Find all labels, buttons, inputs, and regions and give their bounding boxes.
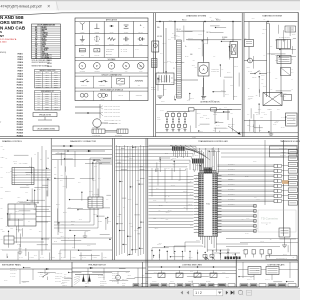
toolbar zoom icon <box>238 290 242 294</box>
svg-text:MR: MR <box>35 53 37 55</box>
transmission solenoid legend table <box>270 146 298 157</box>
svg-text:GN 0.8: GN 0.8 <box>226 277 230 279</box>
svg-text:GY 1.0: GY 1.0 <box>202 246 206 248</box>
starting lower wires <box>244 120 286 122</box>
svg-text:PG 4: PG 4 <box>78 182 81 184</box>
svg-text:GN 0.8: GN 0.8 <box>283 92 287 94</box>
svg-text:BR 0.8: BR 0.8 <box>6 226 10 228</box>
svg-text:BU 1.0: BU 1.0 <box>292 34 296 36</box>
svg-text:SHEET 1: SHEET 1 <box>100 285 105 287</box>
svg-text:A: A <box>203 68 205 72</box>
legend symbol battery <box>124 24 129 26</box>
svg-text:GLOW PLUG: GLOW PLUG <box>98 277 105 279</box>
circuit drawing legend box <box>33 126 59 131</box>
svg-text:FUSE 17: FUSE 17 <box>17 99 23 101</box>
svg-text:PG 2: PG 2 <box>108 221 111 223</box>
svg-text:WH 0.8: WH 0.8 <box>27 204 31 206</box>
svg-text:VT: VT <box>35 40 37 42</box>
legend symbol capacitor <box>123 38 125 40</box>
svg-text:LT GREEN: LT GREEN <box>42 48 49 50</box>
svg-text:DG: DG <box>35 57 37 59</box>
svg-text:RD 1.0: RD 1.0 <box>137 180 141 182</box>
svg-text:RD 1.0 PG 2: RD 1.0 PG 2 <box>10 270 17 272</box>
relay K1 <box>245 40 254 47</box>
svg-text:WORK LP: WORK LP <box>188 281 193 283</box>
svg-text:BK 2.0: BK 2.0 <box>273 124 276 126</box>
divider pre-heat / lighting switches (bottom) <box>235 256 237 287</box>
harness vertical wire bundle <box>116 145 118 256</box>
svg-text:OR 0.8: OR 0.8 <box>159 205 163 207</box>
svg-text:OR 0.8: OR 0.8 <box>129 158 133 160</box>
svg-text:PG 2: PG 2 <box>10 170 13 172</box>
charging misc wires lower <box>195 109 197 128</box>
legend header APPLICATION <box>75 20 148 22</box>
svg-text:BR 0.8: BR 0.8 <box>16 211 20 213</box>
svg-text:8 CN-8: 8 CN-8 <box>37 87 41 89</box>
svg-text:PG 2: PG 2 <box>55 93 58 95</box>
svg-text:WH 0.8: WH 0.8 <box>267 72 271 74</box>
nav next page button <box>226 291 228 294</box>
svg-text:WIRE CODES: WIRE CODES <box>106 49 114 51</box>
svg-text:RD 2.0: RD 2.0 <box>182 20 187 22</box>
right area lower wires <box>226 238 298 240</box>
svg-text:YE 1.0: YE 1.0 <box>162 80 166 82</box>
wire vertical to alternator <box>203 22 205 63</box>
diagnostic extra 3 <box>81 192 83 200</box>
svg-text:GY 0.8: GY 0.8 <box>19 257 23 259</box>
wires below diagnostic connector <box>89 208 91 222</box>
svg-text:BK 2.0: BK 2.0 <box>207 32 211 34</box>
svg-text:H-5: H-5 <box>37 102 39 104</box>
svg-text:RD: RD <box>35 31 37 33</box>
page number input box <box>193 289 223 295</box>
nav previous page button <box>187 291 189 294</box>
svg-text:OR 0.8: OR 0.8 <box>189 257 193 259</box>
svg-text:S 1.0: S 1.0 <box>177 95 180 97</box>
small components bottom right of TCU section <box>244 250 247 255</box>
TCU right pin stubs <box>217 175 222 177</box>
svg-text:PG 4: PG 4 <box>262 79 265 81</box>
neutral switch box <box>281 68 291 76</box>
diagnostic extra 2 <box>80 177 94 179</box>
svg-text:PG 2: PG 2 <box>287 37 290 39</box>
legend switch normally open <box>92 76 94 88</box>
svg-text:BR: BR <box>35 29 37 31</box>
svg-text:VOLTAGE: VOLTAGE <box>108 58 117 61</box>
svg-text:RD 1.0: RD 1.0 <box>196 240 200 242</box>
svg-text:PG 8: PG 8 <box>55 106 58 108</box>
harness horizontal stubs <box>134 214 139 216</box>
svg-text:GND 1.0: GND 1.0 <box>85 283 90 285</box>
fuse bank small box <box>189 108 195 111</box>
svg-text:BU 1.0: BU 1.0 <box>211 20 215 22</box>
svg-text:BR 0.8: BR 0.8 <box>26 173 30 175</box>
horizontal divider above bottom lighting section <box>0 259 298 261</box>
diagnostic vertical wires <box>57 160 59 235</box>
svg-text:LIGHTING RELAYS: LIGHTING RELAYS <box>268 264 286 267</box>
svg-text:WH 0.8: WH 0.8 <box>248 71 252 73</box>
svg-text:CB: CB <box>96 50 98 52</box>
legend grid columns <box>89 21 91 57</box>
area above TCU extra wires <box>209 168 211 172</box>
svg-text:WH 0.8: WH 0.8 <box>171 185 175 187</box>
svg-text:FUSE 5: FUSE 5 <box>18 65 24 67</box>
svg-text:YE 1.0: YE 1.0 <box>273 95 277 97</box>
svg-text:GY 1.0: GY 1.0 <box>37 189 41 191</box>
svg-text:KEY SW: KEY SW <box>157 36 163 38</box>
svg-text:FUSE 15: FUSE 15 <box>17 93 23 95</box>
svg-text:PG 3: PG 3 <box>264 113 267 115</box>
wire vertical to fusible link <box>232 22 234 43</box>
small relay lower right <box>279 228 290 237</box>
svg-text:H-8: H-8 <box>37 109 39 111</box>
svg-text:OR 0.8: OR 0.8 <box>261 75 265 77</box>
svg-text:PG 6: PG 6 <box>55 102 58 104</box>
svg-text:LIGHTING SWITCHES: LIGHTING SWITCHES <box>182 265 202 267</box>
svg-text:GY: GY <box>35 42 37 44</box>
svg-text:PG 3: PG 3 <box>71 223 74 225</box>
svg-text:BK 2.0: BK 2.0 <box>89 191 93 193</box>
bottom toolbar background <box>0 288 300 300</box>
svg-text:GY 1.0: GY 1.0 <box>39 276 43 278</box>
small inline fuse box mid band <box>211 108 217 111</box>
fuse bank elements <box>166 112 168 114</box>
legend coil symbol <box>135 80 143 81</box>
svg-text:GN 0.8 SOL 5: GN 0.8 SOL 5 <box>228 183 235 185</box>
svg-text:BK 1.0: BK 1.0 <box>283 59 287 61</box>
svg-text:FUSE 26: FUSE 26 <box>17 124 23 126</box>
svg-text:GREEN: GREEN <box>42 36 47 38</box>
svg-text:FUSE 23: FUSE 23 <box>17 116 23 118</box>
connector block above TCU <box>204 168 213 174</box>
diagonal feeders top left of TCU <box>170 146 201 153</box>
svg-text:NONE: NONE <box>122 285 125 287</box>
svg-text:RED: RED <box>42 31 45 33</box>
starter motor M1 <box>263 93 282 106</box>
svg-text:RD 1.0: RD 1.0 <box>59 232 63 234</box>
svg-text:YE 1.0: YE 1.0 <box>129 223 133 225</box>
svg-text:OR 0.8: OR 0.8 <box>229 179 233 181</box>
svg-text:CN-6: CN-6 <box>46 82 49 84</box>
svg-text:ENDS): ENDS) <box>0 52 7 54</box>
svg-text:WH 0.8: WH 0.8 <box>178 125 182 127</box>
svg-text:PG 4: PG 4 <box>242 219 245 221</box>
svg-text:CHARGING SYSTEM: CHARGING SYSTEM <box>186 15 207 18</box>
svg-text:■ IGNITION: ■ IGNITION <box>106 51 112 53</box>
bottom arrows <box>46 268 49 270</box>
svg-text:PG 2: PG 2 <box>79 219 82 221</box>
svg-text:GN 0.8: GN 0.8 <box>215 18 219 20</box>
connector strip X1 <box>177 40 182 98</box>
svg-text:BU 1.0: BU 1.0 <box>85 231 89 233</box>
svg-text:RD 1.0: RD 1.0 <box>177 30 181 32</box>
alternator G1 <box>198 63 209 77</box>
svg-text:CN-1: CN-1 <box>46 72 49 74</box>
svg-text:BU 1.0: BU 1.0 <box>29 165 33 167</box>
bus junction dots <box>159 21 160 22</box>
svg-text:SENSOR 1: SENSOR 1 <box>5 191 11 193</box>
svg-text:OR 0.8: OR 0.8 <box>234 66 238 68</box>
drawing control extra wires <box>14 154 29 156</box>
divider harness / transmission controller <box>145 138 147 287</box>
svg-text:3 CN-3: 3 CN-3 <box>37 76 41 78</box>
svg-text:BK 2.0: BK 2.0 <box>256 270 260 272</box>
svg-text:BROWN: BROWN <box>42 29 47 31</box>
special notes box <box>33 113 57 117</box>
svg-text:GY 0.8 LP: GY 0.8 LP <box>10 275 15 277</box>
svg-text:WH 0.8: WH 0.8 <box>134 230 138 232</box>
sheet right border <box>297 12 299 287</box>
upper left fan horizontal wires <box>116 146 197 148</box>
svg-text:PG 4: PG 4 <box>47 272 50 274</box>
section divider between legend area and charging system <box>153 13 155 137</box>
svg-text:H-3: H-3 <box>37 98 39 100</box>
svg-text:PG 4: PG 4 <box>17 201 20 203</box>
svg-text:CIRCUIT COMBINATIONS: CIRCUIT COMBINATIONS <box>101 74 122 77</box>
svg-text:GY 0.8 LP: GY 0.8 LP <box>10 268 15 270</box>
svg-text:BR 0.8: BR 0.8 <box>189 203 193 205</box>
svg-text:CN-7: CN-7 <box>46 85 49 87</box>
top horizontal wires over TCU section <box>149 144 299 146</box>
svg-text:PINK: PINK <box>42 46 45 48</box>
svg-text:B 14: B 14 <box>2 157 5 159</box>
input dropdown arrow <box>216 290 218 296</box>
svg-text:FUSE 2: FUSE 2 <box>18 56 24 58</box>
svg-text:GN 0.8 SOL 2: GN 0.8 SOL 2 <box>228 168 235 170</box>
svg-text:BR 0.8: BR 0.8 <box>190 194 194 196</box>
auxiliary box top right <box>285 26 296 32</box>
legend gauge circle T <box>108 63 115 70</box>
svg-text:BR 0.8: BR 0.8 <box>57 238 61 240</box>
divider drawing control / diagnostic connector <box>50 138 52 260</box>
svg-text:BR 0.8: BR 0.8 <box>190 98 194 100</box>
svg-text:GROUND: GROUND <box>95 31 100 33</box>
svg-text:GN 0.8: GN 0.8 <box>175 83 179 85</box>
svg-text:BK: BK <box>35 27 37 29</box>
svg-text:RD 1.0: RD 1.0 <box>200 117 204 119</box>
ground symbol charging 1 <box>163 85 165 97</box>
svg-text:GY 1.0: GY 1.0 <box>169 19 173 21</box>
svg-text:OR 0.8: OR 0.8 <box>281 127 285 129</box>
charging lower bus wire <box>156 104 242 106</box>
svg-text:BR 0.8: BR 0.8 <box>56 204 60 206</box>
svg-text:TEMP: TEMP <box>110 71 113 73</box>
svg-text:TN: TN <box>35 52 37 54</box>
svg-text:BU: BU <box>35 38 37 40</box>
svg-text:FUSE 16: FUSE 16 <box>17 96 23 98</box>
svg-text:GN 0.8 SOL 1: GN 0.8 SOL 1 <box>228 163 235 165</box>
svg-text:RXD: RXD <box>54 174 57 176</box>
svg-text:FUSE 11: FUSE 11 <box>17 82 23 84</box>
svg-text:PG 7: PG 7 <box>55 104 58 106</box>
svg-text:TRANSMISSION CONTROLLER: TRANSMISSION CONTROLLER <box>198 140 228 143</box>
svg-text:S 1.0: S 1.0 <box>168 39 171 41</box>
svg-text:STARTING SYSTEM: STARTING SYSTEM <box>262 15 282 18</box>
divider diagnostic connector / harness area <box>112 138 114 260</box>
diagnostic arrow wires <box>52 145 112 147</box>
svg-text:H-2: H-2 <box>37 95 39 97</box>
svg-text:CN-2: CN-2 <box>46 74 49 76</box>
svg-text:PG 3: PG 3 <box>55 95 58 97</box>
drawing control extra 2 <box>16 226 18 243</box>
svg-text:RD 1.0: RD 1.0 <box>161 101 165 103</box>
svg-text:2 PL: 2 PL <box>219 107 222 109</box>
svg-text:BK 2.0: BK 2.0 <box>161 218 165 220</box>
safety relay K3 <box>277 56 291 64</box>
svg-text:LB: LB <box>35 50 37 52</box>
svg-text:GY 1.0: GY 1.0 <box>216 125 220 127</box>
svg-text:PG 3: PG 3 <box>275 60 278 62</box>
pre-heat arrow cluster <box>75 274 103 276</box>
svg-text:GY 1.0: GY 1.0 <box>154 272 158 274</box>
svg-text:YE 2.0: YE 2.0 <box>246 67 250 69</box>
divider lighting switches vertical <box>142 262 144 287</box>
svg-text:SWITCH B: SWITCH B <box>55 278 61 280</box>
svg-text:GY 1.0: GY 1.0 <box>6 171 10 173</box>
svg-text:FUSE 21: FUSE 21 <box>17 110 23 112</box>
svg-text:7 CN-7: 7 CN-7 <box>37 85 41 87</box>
svg-text:BK 2.0: BK 2.0 <box>185 56 189 58</box>
svg-text:WH 0.8: WH 0.8 <box>172 158 176 160</box>
wire label legend sample <box>75 106 100 108</box>
svg-text:PG 2: PG 2 <box>260 117 263 119</box>
svg-text:OR 0.8: OR 0.8 <box>168 209 172 211</box>
small relay box bottom left <box>4 236 14 244</box>
svg-text:MOTOR: MOTOR <box>101 99 105 101</box>
legend symbol fuse <box>79 49 85 52</box>
starting system top bus wire <box>244 21 298 23</box>
TCU left pin stubs <box>194 175 199 177</box>
svg-text:YE: YE <box>35 34 37 36</box>
svg-text:BU 1.0: BU 1.0 <box>14 163 18 165</box>
svg-text:BU 1.0: BU 1.0 <box>225 94 229 96</box>
svg-text:474(X)(6T)-linked.pdf.pdf: 474(X)(6T)-linked.pdf.pdf <box>1 4 43 8</box>
browser tab bar <box>0 0 300 11</box>
ammeter A1 <box>248 58 253 63</box>
svg-text:FUSE 30: FUSE 30 <box>17 135 23 137</box>
pre-divider switch symbols <box>205 257 209 260</box>
pre-heat vertical wires <box>87 268 89 283</box>
ground lower right <box>284 237 286 245</box>
pre-heat relay circle <box>116 275 121 280</box>
resistor block below TCU <box>203 255 207 258</box>
svg-text:WH 0.8: WH 0.8 <box>267 109 271 111</box>
svg-text:GY 0.8: GY 0.8 <box>82 257 86 259</box>
svg-text:TCU: TCU <box>206 204 211 206</box>
svg-text:BK 2.0: BK 2.0 <box>181 127 184 129</box>
svg-text:RD 1.0: RD 1.0 <box>243 250 247 252</box>
diagnostic extra wires <box>110 238 111 240</box>
svg-text:BR 0.8: BR 0.8 <box>63 211 67 213</box>
drawing control connector J2 <box>12 168 34 185</box>
horizontal divider between top and middle sections <box>0 136 298 138</box>
svg-text:ENGINE: ENGINE <box>151 87 156 89</box>
legend lamp symbol <box>92 91 94 100</box>
svg-text:LT BLUE: LT BLUE <box>42 50 48 52</box>
wire ammeter bus <box>244 60 248 62</box>
legend symbol antenna <box>81 25 83 31</box>
svg-text:BK 2.0: BK 2.0 <box>193 169 197 171</box>
svg-text:N AND CAB: N AND CAB <box>0 25 26 30</box>
svg-text:S 1.0: S 1.0 <box>254 196 257 198</box>
svg-text:FUSE 6: FUSE 6 <box>18 68 24 70</box>
battery B1 <box>156 73 174 85</box>
svg-text:V: V <box>81 64 83 68</box>
svg-text:DIAGNOSTIC CONNECTOR: DIAGNOSTIC CONNECTOR <box>70 140 96 143</box>
svg-text:BLUE: BLUE <box>42 38 46 40</box>
svg-text:REFERENCE: REFERENCE <box>100 281 107 283</box>
solenoid on starter <box>284 95 292 101</box>
legend gauge circle N <box>123 63 130 70</box>
connector pin row block above TCU left <box>192 159 204 164</box>
svg-text:PG 2: PG 2 <box>153 218 156 220</box>
svg-text:OR 0.8: OR 0.8 <box>197 113 201 115</box>
wires bottom left <box>14 237 51 239</box>
svg-text:B+: B+ <box>185 46 187 48</box>
svg-text:FUSE 12: FUSE 12 <box>17 85 23 87</box>
connector row dark squares <box>225 257 227 260</box>
legend grid rows <box>75 33 148 35</box>
svg-text:RD 1.0: RD 1.0 <box>116 277 120 279</box>
svg-text:PG 2: PG 2 <box>166 219 169 221</box>
svg-text:PG 3: PG 3 <box>213 130 216 132</box>
svg-text:PG 2: PG 2 <box>17 244 20 246</box>
svg-text:BU 1.0: BU 1.0 <box>39 231 43 233</box>
legend symbol diode <box>138 37 143 41</box>
svg-text:C1: C1 <box>173 68 175 70</box>
svg-text:PG 3: PG 3 <box>212 165 215 167</box>
svg-text:SB: SB <box>35 55 37 57</box>
svg-text:OR 0.8: OR 0.8 <box>183 191 187 193</box>
svg-text:PG 4: PG 4 <box>255 112 258 114</box>
wires to diagnostic connector <box>89 158 91 197</box>
legend header MISCELLANEOUS SYMBOLS <box>75 87 148 89</box>
svg-text:PG 3: PG 3 <box>230 85 233 87</box>
legend gauge circle G <box>137 63 144 70</box>
wires from connector J2 <box>34 169 51 171</box>
TCU top pin stubs <box>199 171 201 174</box>
svg-text:PRE-HEAT SWITCH: PRE-HEAT SWITCH <box>88 264 106 267</box>
svg-text:GN 0.8: GN 0.8 <box>274 122 278 124</box>
svg-text:FUSE 8: FUSE 8 <box>18 73 24 75</box>
svg-text:BR 0.8: BR 0.8 <box>163 43 167 45</box>
svg-text:CN-3: CN-3 <box>46 76 49 78</box>
lighting bus junction dots <box>161 266 162 267</box>
svg-text:APPLICATION: APPLICATION <box>106 19 118 22</box>
svg-text:FUSE 29: FUSE 29 <box>17 133 23 135</box>
svg-text:SOLENOID REF: SOLENOID REF <box>279 148 287 150</box>
svg-text:5 CN-5: 5 CN-5 <box>37 80 41 82</box>
svg-text:BR 0.8: BR 0.8 <box>128 199 132 201</box>
svg-text:OR 0.8: OR 0.8 <box>230 51 234 53</box>
wires above TCU <box>199 148 201 174</box>
sheet bottom border <box>0 286 298 288</box>
svg-text:DEVICE SIDE: DEVICE SIDE <box>115 135 122 137</box>
svg-text:PG 4: PG 4 <box>210 17 213 19</box>
left fan vertical connectors <box>151 168 153 197</box>
svg-text:FUSE 7: FUSE 7 <box>18 71 24 73</box>
starter relay K2 <box>277 40 291 49</box>
svg-text:WH 0.8: WH 0.8 <box>170 62 174 64</box>
svg-text:SPLICE: SPLICE <box>110 31 114 33</box>
svg-text:PG 3: PG 3 <box>18 197 21 199</box>
svg-text:BK 2.0: BK 2.0 <box>19 248 22 250</box>
wire vertical to connector strip <box>174 22 176 41</box>
svg-text:FUSIBLE: FUSIBLE <box>222 37 228 39</box>
svg-text:FUSE 3: FUSE 3 <box>18 59 24 61</box>
ignition switch S1 <box>250 73 255 75</box>
svg-text:BR 0.8: BR 0.8 <box>200 131 204 133</box>
